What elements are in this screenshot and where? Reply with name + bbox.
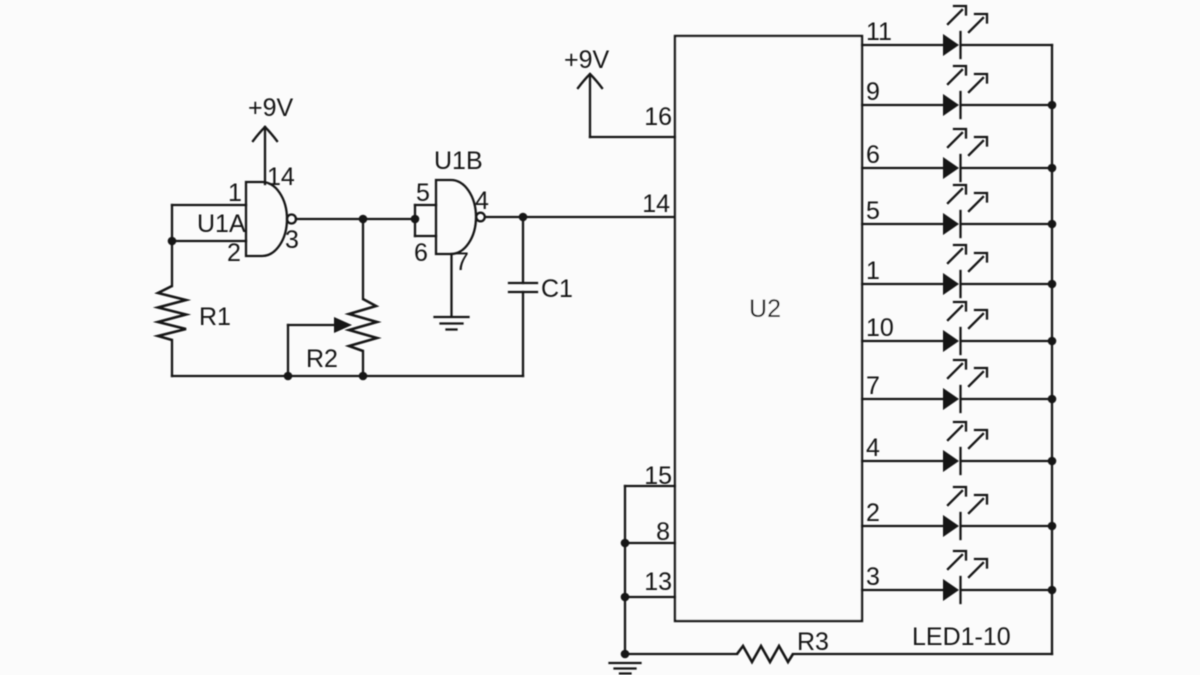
svg-text:6: 6 bbox=[866, 141, 880, 169]
svg-text:6: 6 bbox=[414, 239, 428, 267]
svg-text:C1: C1 bbox=[541, 275, 573, 303]
svg-text:4: 4 bbox=[866, 434, 880, 462]
svg-text:14: 14 bbox=[642, 190, 670, 218]
svg-text:+9V: +9V bbox=[564, 46, 610, 74]
svg-text:7: 7 bbox=[866, 372, 880, 400]
svg-text:10: 10 bbox=[866, 314, 894, 342]
svg-text:1: 1 bbox=[228, 179, 242, 207]
svg-text:1: 1 bbox=[866, 257, 880, 285]
svg-text:R2: R2 bbox=[306, 345, 338, 373]
svg-text:U2: U2 bbox=[749, 295, 781, 323]
svg-text:2: 2 bbox=[866, 499, 880, 527]
svg-text:3: 3 bbox=[285, 226, 299, 254]
svg-text:2: 2 bbox=[227, 239, 241, 267]
svg-text:R3: R3 bbox=[797, 628, 829, 656]
svg-text:U1B: U1B bbox=[434, 147, 483, 175]
svg-text:U1A: U1A bbox=[197, 210, 246, 238]
svg-text:5: 5 bbox=[416, 179, 430, 207]
svg-text:16: 16 bbox=[644, 103, 672, 131]
svg-text:3: 3 bbox=[866, 563, 880, 591]
svg-text:8: 8 bbox=[656, 518, 670, 546]
svg-text:14: 14 bbox=[267, 163, 295, 191]
svg-text:LED1-10: LED1-10 bbox=[912, 623, 1011, 651]
svg-text:7: 7 bbox=[455, 248, 469, 276]
svg-text:5: 5 bbox=[866, 197, 880, 225]
svg-text:9: 9 bbox=[866, 78, 880, 106]
svg-text:+9V: +9V bbox=[248, 94, 294, 122]
svg-text:15: 15 bbox=[644, 462, 672, 490]
svg-text:R1: R1 bbox=[199, 303, 231, 331]
svg-text:4: 4 bbox=[475, 187, 489, 215]
svg-text:13: 13 bbox=[644, 568, 672, 596]
svg-text:11: 11 bbox=[866, 18, 892, 46]
